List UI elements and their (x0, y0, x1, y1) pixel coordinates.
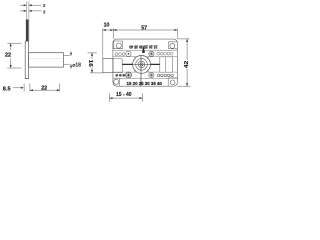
top-left pocket (113, 41, 123, 49)
bottom-right pocket (168, 78, 177, 86)
dimension 22 (bottom) arrows (30, 89, 60, 91)
dimension 42 line (186, 39, 188, 86)
dimension 8.5 leader line (13, 87, 21, 89)
dimension 15-40 extension lines (110, 93, 143, 102)
top-right pocket (169, 42, 178, 49)
svg-text:15 - 40: 15 - 40 (116, 92, 132, 98)
dimension 3 (row 2) leader lines (20, 10, 42, 12)
dimension 57 right extension line (176, 29, 178, 39)
side view: upper strip right edge (28, 2, 30, 42)
bottom-right corner hole (170, 80, 175, 85)
dimension 16 arrows (91, 53, 93, 73)
left tab outer (103, 59, 113, 73)
svg-text:57: 57 (141, 26, 147, 32)
hub vertical centerline (140, 56, 142, 87)
hub screw cross (140, 63, 142, 65)
svg-text:22: 22 (41, 85, 47, 91)
side view: body block (29, 53, 64, 67)
svg-text:10: 10 (104, 22, 110, 28)
bottom-left corner hole (114, 79, 119, 84)
right middle block (160, 57, 173, 72)
side view: dark section bar of strip (26, 20, 29, 42)
hub crosshair inside (133, 63, 151, 65)
dimension 42 label (183, 60, 189, 69)
side view: faint centerline (dashed) (30, 58, 62, 60)
dimension 57 arrows (113, 29, 177, 31)
band line upper-top (113, 50, 177, 52)
hub horizontal centerline (122, 63, 159, 65)
diameter 18 arrows (70, 53, 72, 67)
scale pointer needle (142, 45, 145, 53)
dimension 42 arrows (186, 39, 188, 86)
band line lower-bottom (113, 77, 177, 79)
dimension 3 (row 2) arrows (24, 10, 32, 12)
svg-text:42: 42 (184, 61, 190, 69)
small hole row bottom-right (5 dark holes) (157, 74, 173, 77)
band line lower-top (113, 71, 177, 73)
svg-text:15 20 25 30 35 40: 15 20 25 30 35 40 (127, 81, 163, 86)
right middle block divider (164, 57, 166, 72)
small hole row top-right (5 holes) (157, 52, 173, 55)
bottom-left pocket (113, 78, 120, 86)
band line upper-bottom (113, 56, 177, 58)
hub radial ticks (134, 57, 149, 72)
dimension 3 (row 1) leader lines (20, 4, 42, 6)
front view outline (rounded rectangle) (113, 39, 177, 86)
gear wheel bottom-left (126, 72, 132, 78)
dimension 22 (bottom) dimension line (30, 89, 60, 91)
hub middle circle (136, 59, 148, 71)
side view: upper strip left edge (25, 2, 27, 42)
svg-text:22: 22 (5, 52, 11, 58)
svg-text:3: 3 (43, 9, 46, 15)
svg-text:16: 16 (87, 60, 93, 67)
top-left corner hole (116, 43, 121, 48)
dimension 10 line (103, 29, 114, 31)
small hole row bottom-left (3 dark holes) (115, 74, 125, 77)
dimension 10 extension line (102, 29, 104, 59)
dimension 42 top extension line (177, 38, 189, 40)
svg-text:⌀18: ⌀18 (72, 63, 81, 69)
dimension 15-40 line (110, 97, 143, 99)
dimension 42 bottom extension line (177, 85, 190, 87)
hub corner screw bottom-right (149, 73, 154, 78)
left tab inner pocket (113, 59, 122, 73)
dimension 22 (left) extension lines (7, 43, 21, 68)
dimension 16 line (two segments) (91, 53, 93, 59)
dimension 15-40 arrows (110, 97, 143, 99)
dimension 22 (bottom) extension lines (30, 83, 60, 91)
side view: lower plate outline (25, 41, 28, 78)
dimension 8.5 arrow (21, 87, 24, 89)
hub screw circle (140, 63, 143, 66)
hub corner screw top-left (126, 51, 131, 56)
dimension 10 arrows (103, 29, 114, 31)
hub corner screw top-right (149, 51, 154, 56)
small hole row top-left (3 holes) (115, 53, 125, 56)
dimension 8.5 extension line (23, 83, 25, 91)
diameter 18 dimension extension lines (64, 51, 71, 68)
hub inner circle (138, 61, 145, 68)
dimension 16 (tab height) extension lines (87, 53, 103, 73)
dimension 57 left extension line (112, 29, 114, 39)
hub outer circle (133, 56, 151, 74)
svg-text:8.5: 8.5 (3, 86, 11, 92)
top-right corner hole (170, 43, 175, 48)
dimension 3 (row 1) arrows (24, 4, 32, 6)
dimension 22 (left) dimension line (10, 43, 12, 50)
dimension 22 (left) arrows (10, 43, 12, 68)
svg-text:3: 3 (43, 3, 46, 9)
dimension 57 line (113, 29, 177, 31)
